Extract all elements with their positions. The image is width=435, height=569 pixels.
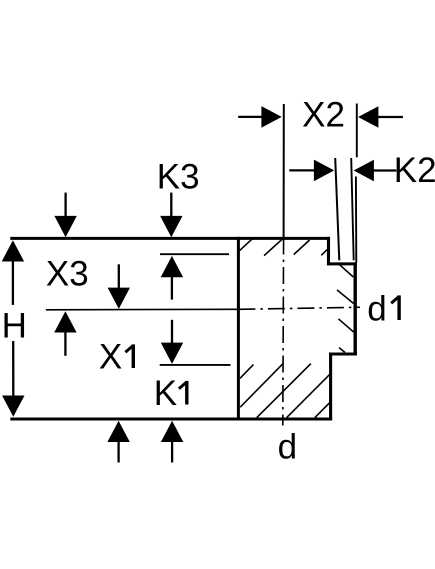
- svg-text:K: K: [154, 374, 177, 413]
- svg-text:K3: K3: [157, 158, 200, 197]
- svg-text:K2: K2: [394, 151, 435, 190]
- svg-text:d: d: [278, 427, 297, 466]
- svg-text:X: X: [99, 337, 122, 376]
- svg-text:H: H: [2, 306, 27, 345]
- svg-text:X2: X2: [302, 96, 345, 135]
- svg-text:X3: X3: [46, 255, 89, 294]
- svg-text:d: d: [367, 290, 386, 329]
